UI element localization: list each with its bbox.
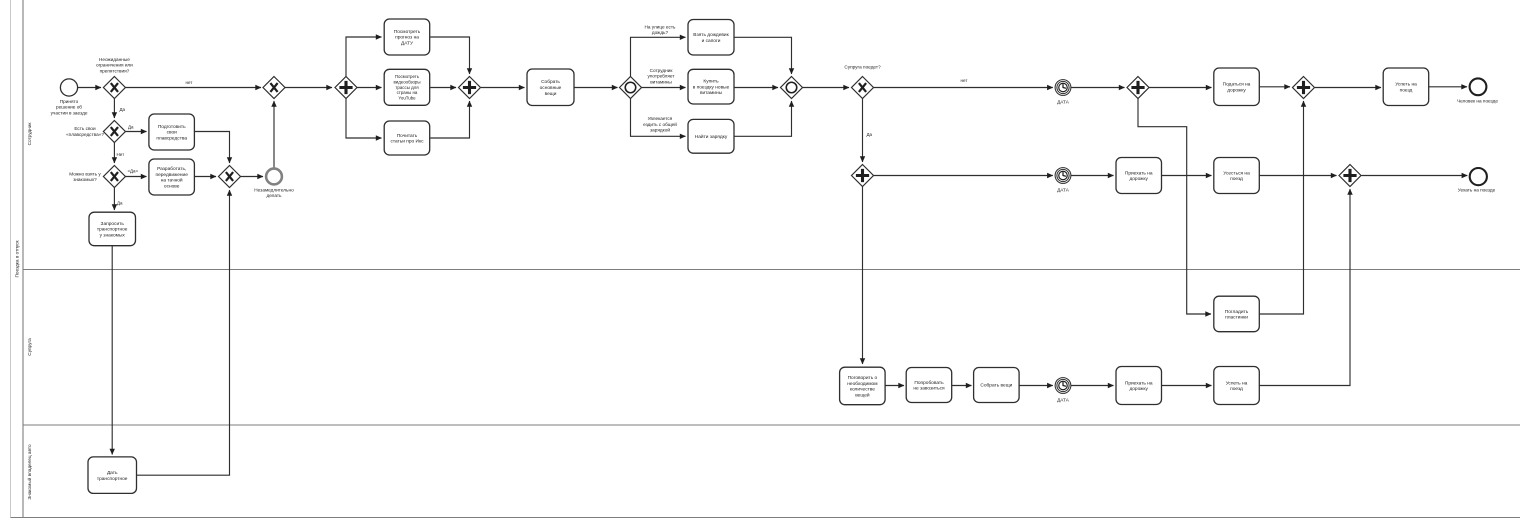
- label: gateway G3: [69, 171, 101, 182]
- svg-text:знакомых?: знакомых?: [73, 177, 97, 182]
- wire: task Vzyat dozhdevik to join I2 top: [734, 37, 791, 74]
- intermediate event: Nezamedlitelno delat: [266, 169, 282, 185]
- wire: G3 to task Razrabotat: [126, 176, 147, 178]
- task pochitat: [384, 121, 430, 155]
- gateway P5 parallel join: [1293, 77, 1315, 99]
- label: flow 'net' G1: [186, 80, 193, 85]
- svg-text:Найти зарядку: Найти зарядку: [695, 133, 728, 140]
- label: condition charger: [643, 116, 677, 132]
- wire: task Sobrat osnovnye to inclusive split I1: [574, 87, 617, 89]
- task sobrat-veschi: [974, 368, 1020, 403]
- wire: join P2 to task Sobrat osnovnye: [481, 87, 525, 89]
- wire: timer T3 to task Priehat 2: [1071, 385, 1114, 387]
- svg-text:Подготовить: Подготовить: [158, 124, 186, 130]
- svg-text:решение об: решение об: [56, 105, 82, 110]
- svg-text:Сотрудник: Сотрудник: [27, 122, 32, 146]
- svg-text:и сапоги: и сапоги: [702, 39, 721, 44]
- task priehat1: [1116, 158, 1162, 194]
- svg-text:препятствия?: препятствия?: [100, 68, 130, 73]
- svg-text:Супруга: Супруга: [27, 338, 32, 356]
- task uspet2: [1214, 367, 1260, 405]
- svg-text:Уехать на поезде: Уехать на поезде: [1458, 188, 1496, 193]
- gateway P3 parallel split: [852, 165, 874, 187]
- label: gateway G1: [96, 57, 133, 73]
- gateway P2 parallel join: [459, 77, 481, 99]
- svg-text:дорожку: дорожку: [1129, 387, 1148, 392]
- svg-text:Дать: Дать: [107, 470, 118, 476]
- task usestsya: [1214, 158, 1260, 194]
- svg-text:Почитать: Почитать: [397, 133, 418, 139]
- task poprobovat: [906, 368, 952, 403]
- gateway G5 XOR join: [263, 77, 285, 99]
- svg-text:основе: основе: [164, 184, 180, 189]
- task pogovorit: [840, 367, 886, 405]
- gateway I2 inclusive join: [781, 77, 803, 99]
- svg-text:Нет: Нет: [117, 152, 125, 157]
- svg-text:видеообзоры: видеообзоры: [393, 80, 420, 85]
- wire: G2 'da' to task Podgotovit: [126, 131, 147, 133]
- wire: parallel P3 down to task Pogovorit: [862, 187, 864, 365]
- svg-text:дорожку: дорожку: [1227, 88, 1246, 93]
- label: timer T3: [1057, 397, 1070, 402]
- label: end E2: [1458, 188, 1496, 193]
- label: condition rain: [645, 24, 677, 35]
- wire: start to gateway G1: [78, 87, 101, 89]
- svg-text:Супруга поедет?: Супруга поедет?: [844, 65, 881, 70]
- wire: join G4 to event Nezamedlitelno: [241, 176, 264, 178]
- task zaryadka: [688, 119, 734, 153]
- pool outer left border: [10, 0, 12, 518]
- task podatsya: [1214, 68, 1260, 106]
- svg-text:ДАТА: ДАТА: [1057, 397, 1070, 402]
- svg-text:Собрать вещи: Собрать вещи: [980, 383, 1012, 389]
- svg-text:Собрать: Собрать: [541, 79, 560, 85]
- label: timer T2: [1057, 187, 1070, 192]
- label: gateway G2: [66, 126, 104, 137]
- start event: Prinyato reshenie: [60, 79, 77, 96]
- svg-text:Неожиданные: Неожиданные: [99, 57, 130, 62]
- label: flow 'Da' G3 down: [117, 201, 123, 206]
- wire: task Pogladit to join P5 bottom: [1259, 101, 1303, 314]
- svg-text:транспортное: транспортное: [97, 228, 128, 233]
- svg-text:Посмотреть: Посмотреть: [395, 74, 420, 79]
- svg-text:передвижение: передвижение: [155, 173, 188, 178]
- gateway G3 XOR: Mozhno vzyat u znakomyh?: [103, 166, 125, 188]
- wire: task Pochitat to join P2 bottom: [430, 101, 469, 138]
- wire: I1 down to task Nayti zaryadku: [631, 99, 686, 137]
- wire: join P5 to task Uspet na poezd 1: [1315, 87, 1381, 89]
- gateway I1 inclusive split: [620, 77, 642, 99]
- svg-text:зарядкой: зарядкой: [650, 127, 670, 133]
- wire: join P6 to end event E2: [1362, 175, 1468, 177]
- wire: event Nezamedlitelno up to join G5: [273, 101, 275, 168]
- svg-text:транспортное: транспортное: [97, 477, 128, 482]
- label: flow 'Da' G6 down: [867, 132, 873, 137]
- svg-text:основные: основные: [540, 86, 562, 91]
- svg-text:«Да»: «Да»: [128, 168, 139, 173]
- svg-text:поезд: поезд: [1230, 177, 1243, 182]
- label: flow 'Da' G2: [128, 125, 134, 130]
- svg-text:необходимом: необходимом: [847, 381, 877, 387]
- svg-text:Приехать на: Приехать на: [1125, 380, 1153, 386]
- svg-text:Усесться на: Усесться на: [1223, 170, 1250, 176]
- task prognoz: [384, 19, 430, 55]
- svg-text:вещей: вещей: [855, 391, 870, 398]
- end event E2: Uehat na poezde: [1470, 168, 1487, 185]
- svg-text:На улице есть: На улице есть: [645, 24, 677, 29]
- wire: task Podatsya to join P5: [1259, 86, 1290, 88]
- svg-text:на тачной: на тачной: [161, 177, 183, 184]
- wire: task Kupit vitaminy to join I2: [734, 87, 778, 89]
- svg-text:Есть свои: Есть свои: [74, 126, 96, 131]
- timer event T2 DATA: [1055, 168, 1071, 184]
- svg-text:YouTube: YouTube: [398, 95, 416, 100]
- svg-text:поезд: поезд: [1400, 88, 1413, 93]
- svg-text:Да: Да: [120, 107, 126, 112]
- wire: task Uspet 1 to end event E1: [1429, 86, 1467, 88]
- svg-text:Да: Да: [117, 201, 123, 206]
- svg-text:Можно взять у: Можно взять у: [69, 171, 101, 176]
- wire: timer T2 to task Priehat 1: [1071, 175, 1114, 177]
- svg-text:прогноз на: прогноз на: [395, 36, 419, 41]
- wire: join G5 to parallel split P1: [285, 87, 332, 89]
- svg-text:Податься на: Податься на: [1223, 82, 1251, 88]
- svg-text:Увлекается: Увлекается: [648, 116, 673, 121]
- wire: P1 down to task Pochitat: [346, 99, 382, 139]
- svg-text:дорожку: дорожку: [1129, 177, 1148, 182]
- wire: task Uspet 2 up to join P6 bottom: [1259, 189, 1350, 386]
- timer event T1 DATA: [1055, 80, 1071, 96]
- gateway G1 XOR: Neozhidannye ogranicheniya?: [103, 77, 125, 99]
- wire: task Sobrat veschi to timer T3: [1019, 385, 1053, 387]
- svg-text:статьи про Икс: статьи про Икс: [390, 139, 424, 145]
- svg-text:Да: Да: [867, 132, 873, 137]
- svg-text:ограничения или: ограничения или: [96, 63, 133, 68]
- gateway P6 parallel join: [1339, 165, 1361, 187]
- wire: task Priehat 1 to task Usestsya: [1162, 175, 1212, 177]
- svg-text:Приехать на: Приехать на: [1125, 170, 1153, 176]
- wire: task Poprobovat to task Sobrat veschi: [952, 385, 972, 387]
- task videoobzory: [384, 69, 430, 105]
- svg-text:ДАТУ: ДАТУ: [401, 41, 414, 47]
- svg-text:поезд: поезд: [1230, 387, 1243, 392]
- wire: P1 to task Videoobzory: [357, 87, 382, 89]
- task uspet1: [1383, 68, 1429, 106]
- task vitaminy: [688, 69, 734, 104]
- wire: timer T1 to parallel P4: [1071, 87, 1125, 89]
- wire: G1 'net' to join G5: [126, 87, 262, 89]
- svg-text:плавсредства: плавсредства: [156, 137, 187, 142]
- svg-text:Успеть на: Успеть на: [1395, 82, 1417, 88]
- svg-text:у знакомых: у знакомых: [100, 234, 126, 239]
- wire: task Nayti zaryadku to join I2 bottom: [734, 101, 791, 136]
- gateway G6 XOR: Supruga poedet?: [852, 77, 874, 99]
- svg-text:Человек на поезде: Человек на поезде: [1457, 98, 1498, 103]
- wire: task Prognoz to join P2 top: [430, 37, 469, 74]
- svg-text:пластинки: пластинки: [1225, 316, 1248, 321]
- svg-text:Принято: Принято: [60, 99, 79, 104]
- svg-text:витамины: витамины: [700, 91, 723, 96]
- svg-text:ДАТА: ДАТА: [1057, 99, 1070, 104]
- wire: G1 'da' down to G2: [113, 99, 115, 119]
- svg-text:Посмотреть: Посмотреть: [394, 29, 421, 35]
- svg-text:количестве: количестве: [850, 388, 875, 393]
- svg-text:Запросить: Запросить: [101, 221, 125, 227]
- svg-text:в поездку новые: в поездку новые: [693, 85, 730, 90]
- wire: P4 down to task Pogladit: [1138, 99, 1211, 315]
- svg-text:Да: Да: [128, 125, 134, 130]
- lane divider 2: [23, 424, 1520, 426]
- lane divider 1: [23, 269, 1520, 271]
- label: event Nezamedlitelno: [254, 187, 294, 198]
- pool bottom border: [11, 517, 1520, 519]
- svg-text:Поездка в отпуск: Поездка в отпуск: [15, 240, 20, 278]
- svg-text:Купить: Купить: [703, 79, 719, 85]
- wire: task Razrabotat to join G4: [194, 176, 216, 178]
- svg-text:употребляет: употребляет: [647, 74, 675, 79]
- gateway G2 XOR: Est svoi plavsredstva?: [103, 121, 125, 143]
- wire: join I2 to gateway Supruga poedet: [803, 87, 850, 89]
- task dozhdevik: [688, 20, 734, 56]
- wire: P4 to task Podatsya na dorozhku: [1149, 87, 1212, 89]
- svg-text:дождь?: дождь?: [652, 30, 669, 35]
- label: end E1: [1457, 98, 1498, 103]
- wire: I1 up to task Vzyat dozhdevik: [631, 37, 686, 76]
- task podgotovit: [149, 114, 195, 150]
- svg-text:не завозиться: не завозиться: [913, 387, 945, 392]
- label: gateway G6: [844, 65, 881, 70]
- svg-text:Взять дождевик: Взять дождевик: [693, 32, 729, 38]
- wire: G3 'da' down to task Zaprosit: [113, 188, 115, 211]
- gateway G4 XOR join: [219, 166, 241, 188]
- svg-text:Попробовать: Попробовать: [914, 380, 944, 386]
- svg-text:делать: делать: [266, 193, 282, 198]
- wire: 'da' down to parallel P3: [862, 99, 864, 163]
- svg-text:Сотрудник: Сотрудник: [650, 68, 674, 73]
- svg-text:Разработать,: Разработать,: [157, 166, 186, 172]
- label: flow 'net' G6: [961, 78, 968, 83]
- timer event T3 DATA: [1055, 378, 1071, 394]
- label: flow 'Da' G1 down: [120, 107, 126, 112]
- svg-text:Поговорить о: Поговорить о: [848, 375, 878, 381]
- svg-text:трассы для: трассы для: [395, 85, 419, 90]
- label: start event: [51, 99, 88, 116]
- task zaprosit: [89, 212, 136, 246]
- wire: parallel P3 to timer T2: [874, 175, 1053, 177]
- wire: task Dat transport to join G4 bottom: [137, 190, 230, 475]
- wire: G2 'net' down to G3: [113, 143, 115, 164]
- wire: task Videoobzory to join P2: [430, 87, 456, 89]
- wire: task Pogovorit to task Poprobovat: [885, 385, 904, 387]
- svg-text:Знакомый владелец авто: Знакомый владелец авто: [26, 444, 32, 500]
- wire: I1 to task Kupit vitaminy: [642, 87, 686, 89]
- svg-text:Погладить: Погладить: [1225, 309, 1249, 315]
- label: timer T1: [1057, 99, 1070, 104]
- task pogladit: [1214, 296, 1260, 332]
- pool label band divider: [22, 0, 24, 518]
- wire: task Zaprosit down to task Dat transport: [111, 246, 113, 455]
- task priehat2: [1116, 367, 1162, 405]
- task dat-transport: [88, 457, 137, 494]
- svg-text:витамины: витамины: [650, 79, 672, 84]
- svg-text:вещи: вещи: [545, 92, 557, 97]
- svg-text:Незамедлительно: Незамедлительно: [254, 187, 294, 192]
- wire: 'net' to timer T1: [874, 87, 1053, 89]
- label: condition vitamins: [647, 68, 675, 85]
- svg-text:нет: нет: [186, 80, 193, 85]
- label: flow 'Da' G3: [128, 168, 139, 173]
- svg-text:Успеть на: Успеть на: [1226, 380, 1248, 386]
- svg-text:ездить с общей: ездить с общей: [643, 121, 677, 127]
- svg-text:участии в заезде: участии в заезде: [51, 110, 88, 115]
- task razrabotat: [149, 159, 195, 195]
- wire: task Priehat 2 to task Uspet 2: [1162, 385, 1212, 387]
- wire: P1 up to task Prognoz: [346, 37, 382, 77]
- gateway P4 parallel split: [1127, 77, 1149, 99]
- wire: task Podgotovit to join G4 top: [194, 132, 229, 164]
- gateway P1 parallel split: [335, 77, 357, 99]
- svg-text:страны на: страны на: [397, 90, 418, 95]
- end event E1: Chelovek na poezde: [1470, 78, 1487, 95]
- svg-text:«плавсредства»?: «плавсредства»?: [66, 132, 104, 137]
- svg-text:ДАТА: ДАТА: [1057, 187, 1070, 192]
- task sobrat-osnovnye: [527, 69, 574, 106]
- label: flow 'Net' G2 down: [117, 152, 125, 157]
- wire: task Usestsya to join P6: [1259, 175, 1336, 177]
- svg-text:свои: свои: [167, 131, 178, 136]
- svg-text:нет: нет: [961, 78, 968, 83]
